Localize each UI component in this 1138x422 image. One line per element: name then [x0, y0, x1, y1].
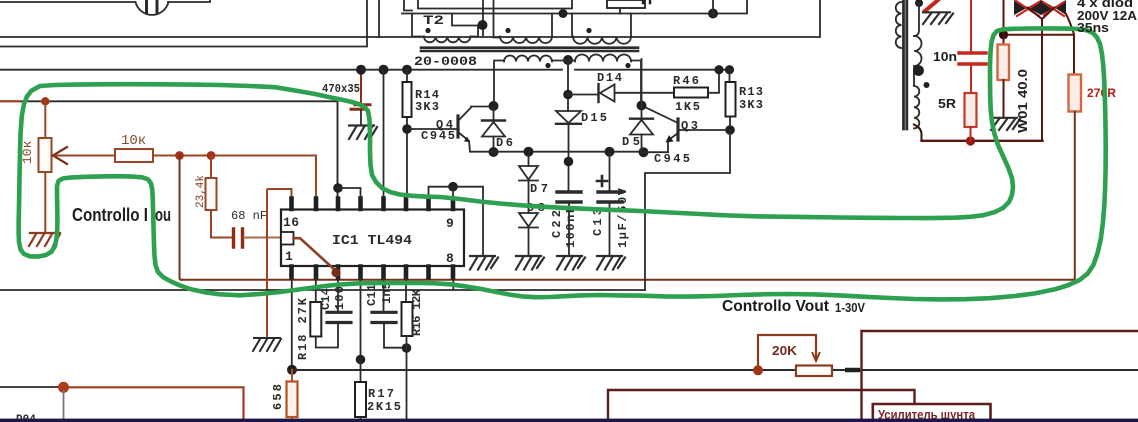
wire bus y70	[0, 69, 731, 71]
svg-text:R46: R46	[673, 74, 699, 88]
node R13 bottom	[725, 125, 735, 135]
resistor 5R body	[965, 93, 977, 127]
wire diodes D7 D8 column	[528, 152, 530, 166]
red diode stroke (cut)	[925, 0, 938, 11]
capacitor C14 plates	[327, 312, 351, 322]
svg-text:5R: 5R	[938, 96, 957, 111]
wire R18 bottom step to C14	[316, 324, 338, 348]
resistor R17 body	[355, 382, 366, 417]
svg-text:C14: C14	[319, 288, 333, 310]
capacitor C11 plates	[372, 312, 396, 322]
transformer T2 secondary winding 2	[575, 55, 631, 62]
wire T3 bottom lead to rail	[914, 125, 922, 141]
wire bridge to 270R diagonal	[1066, 14, 1074, 35]
ground (pot)	[29, 233, 60, 246]
diode D14	[597, 84, 599, 102]
junction blob on y370 line	[845, 368, 860, 373]
svg-text:R13: R13	[739, 85, 763, 99]
node R17 top	[356, 355, 366, 365]
svg-text:3K3: 3K3	[739, 98, 763, 112]
wire wiper to R 10k	[55, 155, 115, 157]
phase dot secondary 1	[545, 63, 550, 68]
wire bottom-left maroon	[64, 387, 244, 422]
svg-text:10n: 10n	[933, 49, 957, 64]
svg-text:W01 40.0: W01 40.0	[1015, 69, 1030, 133]
node D6 bottom	[489, 147, 499, 157]
resistor R14 leads	[406, 70, 408, 198]
wire pot bottom to ground	[44, 172, 46, 233]
wire 23,4k to capacitor 68nF	[211, 237, 232, 239]
ground (IC pins 9-10)	[470, 256, 498, 270]
node bottom-left	[58, 382, 69, 393]
node T3 top	[915, 0, 923, 7]
node T2 primary junction	[478, 20, 488, 30]
node 5R bottom	[966, 136, 975, 145]
node secondary centre tap	[563, 55, 573, 65]
wire y290 ground return line	[0, 289, 645, 291]
transformer T3 primary winding (left)	[896, 2, 902, 48]
potentiometer 10k body	[39, 138, 52, 172]
wire secondary1 left lead	[494, 61, 504, 106]
capacitor C13 polarity plus	[597, 176, 607, 186]
phase dot primary 1	[425, 28, 430, 33]
T2 core	[421, 48, 638, 51]
svg-text:3K3: 3K3	[415, 100, 439, 114]
node 658 top	[287, 365, 297, 375]
svg-text:C945: C945	[421, 129, 455, 143]
node rail at D5	[639, 147, 649, 157]
node on y101 at pot	[41, 97, 49, 105]
maroon box corner right	[862, 331, 1138, 422]
transformer T2 primary winding 3	[573, 37, 631, 44]
svg-text:T2: T2	[423, 13, 444, 28]
resistor R13 body	[726, 82, 736, 117]
wire top-left to tube	[0, 1, 135, 3]
node pin3 brown	[331, 268, 340, 277]
wire tube to top edge	[168, 0, 210, 2]
node bus at 729.5	[725, 65, 734, 74]
svg-text:R17: R17	[368, 387, 394, 401]
wire 5R bottom	[970, 127, 972, 141]
potentiometer 20K body	[796, 366, 832, 377]
wire R13 to Q3 base	[680, 129, 730, 131]
wire D8 to ground	[528, 228, 530, 257]
node D6 top	[489, 101, 499, 111]
wire 270R bottom to feedback line	[1074, 112, 1076, 280]
svg-text:ou: ou	[155, 205, 171, 225]
svg-text:C22: C22	[550, 210, 564, 238]
feedback input box on IC left edge	[281, 232, 294, 245]
svg-text:9: 9	[446, 216, 454, 231]
capacitor 68nF plates	[234, 229, 243, 247]
phase dot secondary 2	[625, 63, 630, 68]
node bus at 361	[356, 65, 366, 75]
wire pin3 to C14	[337, 278, 339, 313]
svg-text:658: 658	[271, 384, 285, 410]
wire D6 vertical	[493, 106, 495, 152]
wire IC pin12 riser from bus	[383, 70, 385, 198]
transformer T2 secondary winding 1	[504, 56, 552, 62]
svg-text:1-30V: 1-30V	[835, 300, 865, 315]
diode D8	[519, 213, 538, 228]
wire emitter rail y152	[470, 151, 644, 153]
wire pin14 node bridge to pin13	[338, 188, 361, 198]
wire pin5 to C11	[383, 278, 385, 313]
resistor R16 body	[402, 302, 413, 336]
node bus at 719	[714, 65, 723, 74]
resistor 10k body	[115, 149, 153, 162]
wire node to R17	[360, 360, 362, 383]
wire bridge down column	[1041, 20, 1043, 141]
wire node B down to IC pin 15	[315, 156, 317, 199]
wire primary3 right lead	[630, 14, 632, 37]
wire stub x379	[378, 0, 380, 37]
node y13.5 at 563	[559, 9, 568, 18]
wire T2 primary left lead	[412, 14, 424, 37]
wire primary1 to node	[470, 26, 478, 37]
resistor R18 body	[310, 302, 321, 337]
resistor R14 body	[403, 82, 412, 117]
wire R14 to Q4 base	[407, 128, 456, 130]
svg-text:C11: C11	[365, 284, 379, 306]
node A junction	[175, 151, 184, 160]
wire bus y46	[0, 0, 367, 47]
wire 0.04 lead top	[1003, 0, 1005, 45]
ground (0.04)	[991, 118, 1020, 130]
wire C22 to ground	[568, 204, 570, 256]
ground (pin16 riser)	[253, 338, 281, 351]
phase dot primary 3	[586, 28, 591, 33]
capacitor C22 plates	[557, 192, 581, 202]
wire secondary2 right lead	[631, 61, 641, 106]
node y13.5 at 713	[708, 9, 718, 19]
svg-text:270R: 270R	[1087, 86, 1116, 100]
svg-text:35ns: 35ns	[1077, 20, 1109, 35]
wire pot top riser	[44, 101, 46, 138]
op-amp controller IC1 TL494 body	[281, 210, 464, 267]
wire pin8 stub down	[452, 278, 454, 291]
svg-text:1: 1	[285, 249, 293, 264]
wire y13.5 top rail	[402, 0, 747, 14]
svg-text:2K15: 2K15	[367, 400, 401, 414]
wire primary2 left lead	[494, 0, 501, 38]
resistor 270R body	[1069, 75, 1082, 112]
resistor R46 body	[674, 88, 708, 98]
wire long node line y370	[292, 369, 1138, 371]
wire pin2 to R18	[315, 278, 317, 303]
capacitor 470x35 plates	[351, 105, 370, 110]
wire node A feedback riser down	[180, 156, 182, 280]
svg-text:20K: 20K	[772, 343, 798, 358]
ground (C22)	[557, 256, 585, 270]
phase dot primary 2	[505, 28, 510, 33]
maroon wire shunt branch	[608, 390, 915, 422]
wire D7 to D8	[528, 181, 530, 214]
diode D7	[519, 166, 538, 181]
wire primary3 left lead	[572, 14, 573, 37]
node D14 tee	[563, 90, 573, 100]
wire pin4 to R17 node	[360, 278, 362, 360]
svg-text:IC1 TL494: IC1 TL494	[332, 233, 412, 249]
rectifier 4x diodes bowties	[1014, 0, 1028, 15]
svg-text:68 nF: 68 nF	[231, 209, 267, 223]
tube V1 (cut off at top)	[136, 0, 169, 15]
wire C11 bottom to node	[384, 323, 407, 348]
svg-text:Controllo Vout: Controllo Vout	[722, 298, 829, 315]
wire Q4 collector to D6	[471, 106, 494, 108]
transformer T3 secondary upper winding	[914, 36, 922, 86]
wire D15 to C22	[568, 124, 570, 190]
ground (470x35)	[349, 126, 377, 140]
transformer T2 primary winding 1	[424, 37, 470, 43]
wire 10n column top	[970, 0, 972, 51]
wire red stub left on y101	[0, 100, 20, 102]
svg-text:D15: D15	[581, 111, 607, 125]
node 20K left	[753, 365, 763, 375]
node rail at C13	[605, 147, 615, 157]
diode D15	[556, 111, 581, 123]
node pin9 riser	[448, 182, 458, 192]
wire brown diagonal feedback to pin 3	[294, 238, 337, 271]
wire pin16 riser brown	[267, 189, 292, 338]
wire bus y37	[0, 0, 820, 37]
node D5 top	[637, 101, 647, 111]
wire primary2 right lead	[551, 14, 553, 37]
node D15-C22	[564, 157, 574, 167]
node bus at 407	[402, 65, 412, 75]
wire centre tap down	[552, 60, 575, 95]
wire pin1 column	[291, 278, 293, 370]
wire top entry to T2	[404, 0, 412, 11]
wire 0.04 to ground	[1003, 80, 1005, 118]
svg-text:8: 8	[446, 251, 454, 266]
wire 68nF to IC feedback box	[244, 237, 281, 239]
svg-text:D14: D14	[597, 71, 622, 85]
svg-text:20-0008: 20-0008	[414, 54, 477, 69]
node T3 winding tap	[913, 65, 924, 76]
ground (C13)	[597, 256, 625, 270]
wire y101 feedback line to IC pin 14	[0, 101, 338, 198]
ground (D8)	[516, 256, 544, 270]
diode D5	[630, 117, 653, 119]
wire sense node horizontal	[1004, 35, 1075, 75]
svg-text:100nF: 100nF	[564, 206, 578, 248]
wire D14 to R46	[615, 92, 675, 94]
wire output rail maroon	[922, 140, 1043, 142]
wire Q3 emitter to rail	[644, 151, 669, 153]
wire 10k to node A	[153, 155, 316, 157]
wire x619 stub	[619, 8, 621, 14]
svg-text:10к: 10к	[121, 133, 146, 149]
diode D6	[482, 119, 505, 121]
wire D15 column top	[567, 95, 569, 112]
resistor 0.04 body	[998, 45, 1010, 81]
wire pins 10-9 to ground rail	[429, 187, 484, 256]
wire Q3 node down around output box	[645, 130, 730, 290]
wire 470x35 to ground	[360, 111, 362, 126]
transformer T3 secondary lower winding	[914, 86, 919, 128]
highlight loop green freehand	[19, 28, 1106, 299]
svg-text:C13: C13	[591, 208, 605, 236]
wire x713 to top	[712, 0, 714, 14]
red diode strokes	[1016, 1, 1064, 16]
resistor (cut) at top edge	[607, 0, 645, 8]
ground (T3 top)	[923, 12, 953, 24]
node R16 bottom	[402, 343, 412, 353]
node rail at D7	[524, 147, 534, 157]
node 0.04 top	[999, 30, 1008, 39]
wire pin6 to R16	[405, 278, 407, 303]
wire bottom-left black	[0, 386, 64, 388]
transistor Q4	[456, 116, 459, 137]
capacitor C13 plates	[598, 192, 622, 202]
wire D5 vertical	[641, 59, 643, 152]
IC top pins	[292, 199, 454, 210]
node pin14 riser	[333, 183, 343, 193]
transistor Q3	[676, 119, 679, 140]
component stubs cut at top edge	[643, 0, 650, 3]
wire bridge output V	[1028, 8, 1055, 20]
svg-text:16: 16	[283, 215, 299, 230]
capacitor 470x35 wire from bus	[360, 70, 362, 103]
IC bottom pins	[292, 267, 454, 278]
capacitor 10n plates	[959, 53, 986, 64]
potentiometer 20K loop	[758, 335, 816, 370]
wire R17 bottom	[360, 417, 362, 422]
wire R16 node to bottom edge	[406, 336, 408, 422]
node bus at 383.5	[379, 65, 389, 75]
bottom edge dark strip	[0, 419, 1138, 422]
node R14 bottom	[402, 124, 412, 134]
phase dot T3	[924, 82, 930, 88]
wire R46 to bus	[708, 70, 719, 93]
svg-text:470x35: 470x35	[322, 82, 360, 96]
box shunt amplifier	[873, 404, 991, 422]
wire T3 top stub	[914, 3, 919, 36]
svg-text:R16 12K: R16 12K	[410, 288, 424, 336]
transformer T3 core	[904, 0, 907, 129]
wire D14 line	[568, 94, 597, 96]
node B junction	[207, 151, 216, 160]
pot wiper arrow	[53, 147, 67, 164]
wire 10n to 5R	[970, 66, 972, 94]
wire 658 leads	[291, 370, 293, 422]
transformer T2 primary winding 2	[500, 37, 552, 44]
resistor 658 body	[287, 382, 298, 418]
wire long feedback line y279	[181, 279, 1075, 281]
svg-text:1K5: 1K5	[675, 100, 700, 114]
wire pin9 stub	[452, 187, 454, 198]
svg-text:100: 100	[333, 286, 347, 310]
svg-text:Controllo I: Controllo I	[72, 205, 148, 225]
wire grey drop	[63, 391, 65, 422]
resistor R13 leads	[729, 70, 732, 130]
wire node x483 vertical	[452, 0, 483, 37]
resistor 23,4k body	[210, 157, 212, 238]
wire C13 leads	[609, 152, 611, 256]
component box cut at top edge	[418, 0, 572, 9]
potentiometer 20K arrow	[813, 353, 820, 361]
svg-text:23,4k: 23,4k	[195, 175, 207, 208]
